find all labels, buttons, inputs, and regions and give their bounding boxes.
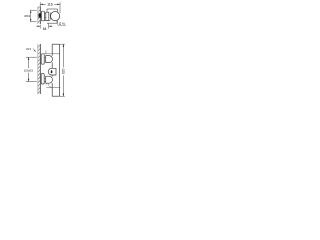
shower holder on bar [48, 68, 56, 75]
holder button [51, 70, 53, 73]
leader to G 1/2 [56, 20, 59, 26]
bar cross lines [47, 87, 61, 89]
dimension 620 (right vertical) [60, 44, 65, 96]
svg-text:26,5: 26,5 [26, 47, 32, 51]
body box (top view) [46, 12, 49, 20]
dimension 64 [36, 24, 52, 29]
top escutcheon (side view) [41, 54, 44, 64]
knob circle (top view) [51, 12, 60, 21]
neck lines [44, 13, 46, 15]
svg-text:G ½: G ½ [59, 22, 65, 26]
dimension Ø43 (left, vertical) [30, 10, 37, 22]
wall hatch (bottom view) [38, 44, 41, 94]
escutcheon (top view) [41, 11, 44, 21]
connection blob through wall [39, 13, 42, 17]
svg-text:620: 620 [62, 68, 66, 74]
flange line [49, 12, 51, 20]
wall hatch (top view) [38, 7, 41, 25]
hose curve [48, 83, 52, 87]
svg-text:150±15: 150±15 [24, 69, 34, 73]
vertical bar / rail [52, 44, 59, 96]
supply stub above escutcheon [45, 51, 47, 54]
holder bracket plate (top/bottom edges) [47, 9, 57, 23]
dimension 150±15 (left vertical) [26, 57, 37, 81]
svg-text:Ø43: Ø43 [24, 14, 30, 18]
svg-text:116: 116 [47, 3, 53, 7]
bottom knob neck [44, 77, 46, 79]
svg-text:64: 64 [43, 27, 47, 31]
top knob neck [44, 57, 46, 59]
line wall to bar (top) [44, 53, 59, 55]
bottom escutcheon (side view) [41, 74, 44, 84]
top knob [46, 56, 53, 63]
bottom knob [46, 76, 53, 83]
dimension 116 [40, 2, 60, 13]
